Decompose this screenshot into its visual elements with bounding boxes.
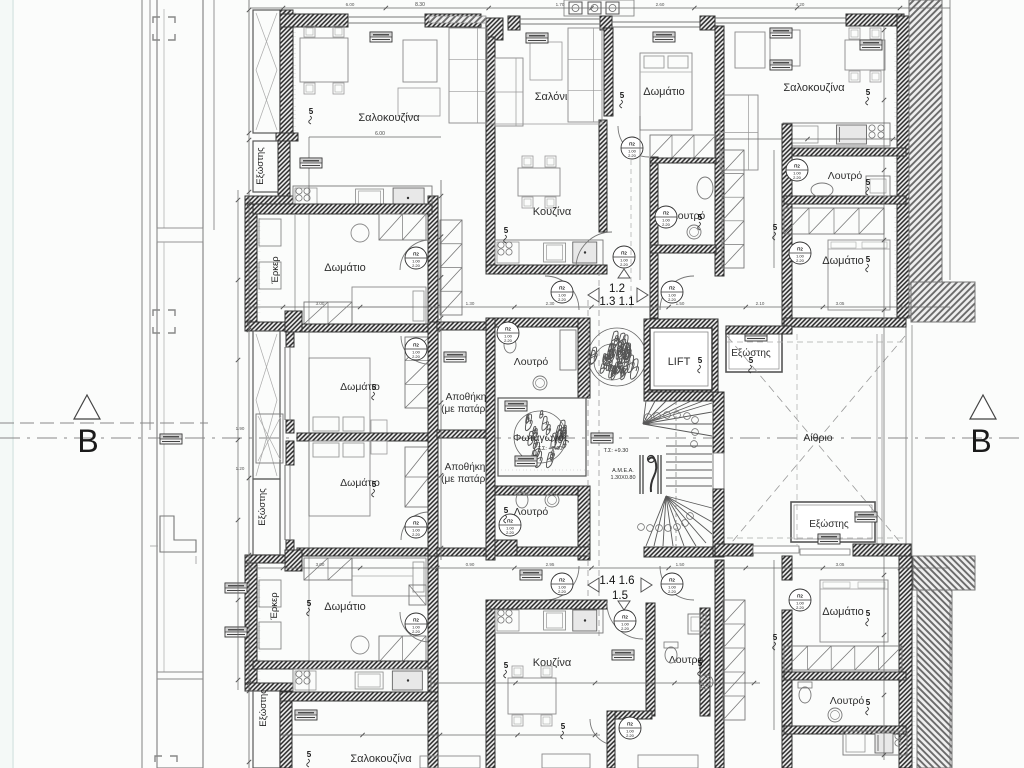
right apartments left wall x715 (715, 26, 724, 276)
svg-text:1.5: 1.5 (612, 590, 628, 602)
dimbox photagogos a (515, 456, 537, 466)
right unit inner wall x782 (782, 124, 792, 330)
wall above bl kitchen counter (253, 661, 431, 669)
window number 5 (307, 750, 312, 767)
svg-text:Π2: Π2 (621, 251, 627, 256)
wall bottom-left y692 (280, 692, 438, 701)
window number 5 (620, 91, 625, 108)
svg-text:2.30: 2.30 (546, 301, 555, 306)
svg-text:3.00: 3.00 (316, 301, 325, 306)
lift inner box (650, 328, 712, 390)
right unit top wall window (715, 17, 846, 19)
bedroom bottom-right left wall lower (782, 610, 792, 768)
bedroom2 door arc (618, 126, 649, 157)
storage divider (437, 430, 486, 438)
svg-text:5: 5 (749, 356, 754, 365)
balcony Exostis small left (253, 141, 280, 192)
bedroom right bottom wall (784, 318, 906, 327)
corridor arrow down (618, 601, 630, 610)
svg-text:Σαλόνι: Σαλόνι (535, 91, 568, 103)
svg-text:Σαλοκουζίνα: Σαλοκουζίνα (783, 82, 845, 94)
svg-text:2.20: 2.20 (626, 733, 635, 738)
separation wall under top-left kitchen (253, 204, 432, 214)
bedroom1 wardrobe top-right (379, 214, 426, 240)
svg-text:Π2: Π2 (413, 343, 419, 348)
step wall y322 (245, 322, 293, 331)
svg-text:Φωταγωγός: Φωταγωγός (513, 432, 569, 444)
kitchen counter bottom-left (293, 669, 431, 692)
window number 5 (307, 599, 312, 616)
svg-text:Π2: Π2 (413, 618, 419, 623)
dimbox salokouzina right (770, 28, 792, 38)
svg-text:3.05: 3.05 (836, 562, 845, 567)
photagogos box (498, 398, 586, 476)
svg-text:5: 5 (773, 633, 778, 642)
window number 5 (866, 609, 871, 626)
svg-text:Π2: Π2 (559, 578, 565, 583)
sink bottom-right (828, 708, 842, 722)
svg-text:5: 5 (866, 609, 871, 618)
vert dim right unit (773, 150, 775, 268)
balcony door sills atrium bottom (753, 546, 799, 553)
window number 5 right bottom (773, 633, 778, 650)
svg-text:5: 5 (307, 599, 312, 608)
step wall y555 (245, 555, 293, 563)
svg-text:Δωμάτιο: Δωμάτιο (324, 262, 366, 274)
wall x486 lower (486, 600, 495, 768)
stair straight treads (666, 446, 712, 486)
window number 5 (698, 659, 703, 676)
svg-text:6.00: 6.00 (346, 2, 355, 7)
toilet right top (811, 183, 833, 197)
svg-text:2.20: 2.20 (793, 175, 802, 180)
window boxes erker bottom (259, 580, 281, 607)
atrium bottom wall left part (715, 544, 753, 556)
svg-text:5: 5 (698, 213, 703, 222)
svg-text:2.20: 2.20 (621, 626, 630, 631)
kitchen counter row top-left (293, 186, 432, 210)
svg-text:Π2: Π2 (413, 252, 419, 257)
sofa sliver bottom centre-right (638, 755, 698, 768)
wall under bath right bottom (784, 726, 906, 734)
vent box 3 (606, 2, 619, 14)
exostis top right box (726, 331, 782, 372)
kitchen top counter bottom-centre (495, 608, 603, 633)
wall mid bottom (611, 711, 652, 719)
vent box 1 (569, 2, 582, 14)
svg-text:5: 5 (372, 480, 377, 489)
left rooms right wall x428 lower (428, 556, 438, 768)
door circle core bath bottom (499, 514, 521, 536)
kitchen bottom wall (486, 265, 607, 274)
L-shaped kerb mark (160, 516, 196, 552)
wall salon/bedroom2 (604, 28, 613, 116)
svg-text:T.Σ: +9.60: T.Σ: +9.60 (538, 446, 563, 452)
svg-text:2.20: 2.20 (620, 262, 629, 267)
erker outer wall top (245, 204, 257, 322)
svg-text:5: 5 (561, 722, 566, 731)
window number 5 (372, 383, 377, 400)
svg-text:5: 5 (372, 383, 377, 392)
closet band bottom-right (784, 646, 902, 670)
storage wall top (437, 322, 486, 330)
dining table bottom kitchen (508, 666, 556, 726)
kitchen right wall (599, 120, 607, 232)
svg-text:3.05: 3.05 (836, 301, 845, 306)
door arc mid-left upper (401, 336, 429, 364)
svg-text:B: B (970, 423, 991, 459)
stair window right (713, 453, 724, 489)
left wall segment mid (286, 331, 294, 347)
svg-text:1.30X0.80: 1.30X0.80 (610, 475, 635, 481)
door circle bath bottom-mid (619, 717, 641, 739)
window number 5 (866, 698, 871, 715)
closet mid-left lower (405, 447, 429, 507)
svg-text:1.3 1.1: 1.3 1.1 (599, 296, 634, 308)
svg-text:Δωμάτιο: Δωμάτιο (822, 255, 864, 267)
stair lower fan (646, 496, 712, 546)
svg-text:5: 5 (504, 661, 509, 670)
sofa set top-left right (449, 28, 487, 123)
dimbox storage (444, 352, 466, 362)
step wall y133 (276, 133, 298, 141)
window number 5 (698, 213, 703, 230)
svg-text:Π2: Π2 (669, 286, 675, 291)
kitchen door arc (576, 232, 612, 268)
svg-text:5: 5 (866, 88, 871, 97)
wall x486 core left (486, 318, 495, 560)
svg-text:5: 5 (698, 659, 703, 668)
insulation dots left upper (293, 12, 296, 132)
dim line 6.00 left unit (309, 136, 441, 138)
insulation dots erker bottom (258, 565, 261, 681)
door circle bottom-left bedroom (405, 613, 427, 635)
coffee table top-left (398, 88, 440, 116)
bedroom bl wardrobe (379, 636, 426, 662)
window number 5 right unit (773, 223, 778, 240)
svg-text:1.70: 1.70 (556, 2, 565, 7)
svg-text:Εξώστης: Εξώστης (257, 488, 268, 526)
closet band right (784, 208, 884, 234)
svg-text:2.20: 2.20 (558, 297, 567, 302)
window number 5 (309, 107, 314, 124)
wall bath-mid left x650 (650, 157, 658, 318)
svg-text:Π2: Π2 (622, 615, 628, 620)
stair right wall lower (713, 489, 724, 557)
pavement inner divider B (163, 242, 165, 672)
salon top window (520, 18, 600, 20)
stair fan upper (643, 401, 712, 436)
salon right sofa (568, 28, 602, 122)
dim chain bottom-left unit (280, 734, 600, 736)
svg-text:B: B (77, 423, 98, 459)
stair right wall (713, 392, 724, 453)
svg-text:5: 5 (307, 750, 312, 759)
bottom unit sofa right (542, 754, 590, 768)
svg-text:1.50: 1.50 (676, 562, 685, 567)
toilet core bottom (515, 487, 529, 508)
right exterior wall upper (897, 16, 909, 318)
pavement inner divider A (163, 9, 165, 228)
svg-text:Εξώστης: Εξώστης (258, 689, 269, 727)
svg-text:Π2: Π2 (507, 519, 513, 524)
balcony mid-left (253, 331, 280, 479)
svg-text:Δωμάτιο: Δωμάτιο (822, 606, 864, 618)
hatch block bath (495, 540, 517, 556)
kitchen counter mid (495, 240, 603, 265)
svg-text:Σαλοκουζίνα: Σαλοκουζίνα (350, 753, 412, 765)
corridor tree (588, 328, 646, 386)
svg-text:5: 5 (698, 356, 703, 365)
atrium right boundary lines (905, 325, 907, 556)
salon top wall piers (508, 16, 520, 30)
svg-text:Έρκερ: Έρκερ (270, 256, 281, 285)
balcony bottom-left (253, 691, 280, 768)
right exterior wall lower (899, 556, 912, 768)
svg-text:Εξώστης: Εξώστης (255, 147, 266, 185)
section marker left triangle (74, 395, 100, 419)
svg-text:2.20: 2.20 (662, 222, 671, 227)
door arc bath bottom-mid (590, 719, 616, 745)
bath right walls (784, 196, 906, 204)
dim chain lower horizontal (250, 567, 950, 569)
kitchen counter right top (783, 123, 890, 146)
door circle kitchen bottom (614, 610, 636, 632)
atrium bottom wall right part (853, 544, 911, 556)
atrium top wall (726, 326, 792, 334)
kitchen top wall bottom-centre (486, 600, 607, 609)
svg-text:2.20: 2.20 (796, 258, 805, 263)
wall bottom right of kitchen (607, 711, 615, 768)
svg-text:8.30: 8.30 (415, 2, 425, 8)
svg-text:5: 5 (773, 223, 778, 232)
core bath bottom wall2 (495, 547, 590, 556)
atrium diagonals (727, 336, 905, 548)
left wall segment 2 (278, 141, 290, 196)
section marker right triangle (970, 395, 996, 419)
bath mid top wall (650, 158, 716, 163)
core bath top right wall (578, 318, 590, 398)
left rooms right wall x428 mid (428, 322, 438, 556)
bath mid bottom walls (646, 603, 655, 716)
vertical dim chain x309 (308, 214, 310, 700)
nightstand mid-left (371, 420, 387, 433)
bath core tub (560, 330, 576, 370)
window lines mid-left lower (284, 465, 286, 540)
window number 5 (504, 661, 509, 678)
salon dining table (518, 156, 560, 208)
erker outer wall bottom (245, 563, 257, 683)
svg-text:1.4 1.6: 1.4 1.6 (599, 575, 634, 587)
top wall right segment (425, 14, 481, 27)
section line B-B (0, 437, 1024, 439)
site boundary line 2 (149, 0, 151, 430)
window boxes erker top (259, 219, 281, 246)
closet bottom-left room (304, 558, 352, 580)
left wall segment bottom (280, 691, 292, 768)
sink core top (533, 376, 547, 390)
bed bedroom bottom-right (820, 580, 888, 642)
door circle bedroom1 (405, 247, 427, 269)
amea figure (640, 455, 661, 494)
corridor arrow left b (588, 578, 599, 592)
door arc corridor left b (545, 566, 579, 600)
svg-text:2.20: 2.20 (412, 532, 421, 537)
corridor dashed centerlines (587, 300, 589, 600)
bedroom bottom-right left wall upper (782, 556, 792, 580)
top terrace platform (564, 0, 634, 16)
neighbour party wall band lower (917, 590, 952, 768)
left wall segment mid2 (286, 441, 294, 465)
table right apartment (845, 28, 885, 82)
svg-text:Π2: Π2 (413, 521, 419, 526)
door circle core bath top (497, 322, 519, 344)
neighbour block lower (913, 556, 975, 590)
top corner block (486, 18, 503, 40)
door circle right bedroom (789, 242, 811, 264)
dimbox bottom corridor (520, 570, 542, 580)
svg-text:5: 5 (620, 91, 625, 100)
core bath bottom (495, 486, 590, 495)
photagogos inner ledge (498, 469, 586, 471)
lift outer wall (644, 319, 718, 399)
corridor arrow right b (641, 578, 652, 592)
bl narrow closet right (409, 585, 426, 605)
svg-text:Αποθήκη: Αποθήκη (446, 391, 487, 403)
svg-text:2.95: 2.95 (546, 562, 555, 567)
svg-text:(με πατάρι): (με πατάρι) (441, 473, 491, 485)
window box between balconies mid-left (256, 414, 283, 463)
door arc corridor left (545, 276, 579, 310)
svg-text:2.20: 2.20 (796, 605, 805, 610)
insulation dots erker top (258, 206, 261, 320)
insulation dots right wall (894, 20, 896, 315)
dim chain top (250, 7, 950, 9)
column marker mid-left dashed (153, 310, 175, 333)
armchair top-left (403, 40, 437, 82)
column marker bottom-left dashed (155, 756, 177, 762)
svg-text:T.Σ: +9.30: T.Σ: +9.30 (604, 448, 629, 454)
svg-text:5: 5 (309, 107, 314, 116)
dim chain far left vertical (237, 190, 239, 690)
stair bottom wall (644, 547, 713, 557)
wall kitchen-left core x486 upper (486, 37, 495, 272)
storage wall bottom (437, 548, 486, 556)
dimbox top-left (370, 32, 392, 42)
dimbox bottom-left unit (295, 710, 317, 720)
bath mid bottom right wall (700, 608, 710, 716)
top wall left segment (280, 14, 348, 27)
door arc corridor right (660, 276, 694, 310)
bed bedroom2 (640, 53, 692, 130)
bedroom1 bed (352, 287, 426, 325)
closet band mid-top (650, 135, 716, 158)
dim chain right vertical (883, 26, 885, 760)
right unit top wall hatched (846, 14, 904, 26)
window number 5 (372, 480, 377, 497)
stair top wall (644, 392, 713, 401)
svg-text:1.2: 1.2 (609, 283, 625, 295)
dimbox kitchen top-left (300, 158, 322, 168)
svg-text:3.00: 3.00 (316, 562, 325, 567)
bedroom bottom-left bed (352, 558, 426, 596)
toilet mid (697, 177, 713, 199)
dimbox salon (526, 33, 548, 43)
closet vertical right unit top (722, 150, 744, 268)
site boundary line 1 (141, 0, 143, 768)
svg-text:2.20: 2.20 (668, 589, 677, 594)
svg-text:Σαλοκουζίνα: Σαλοκουζίνα (358, 112, 420, 124)
svg-text:4.20: 4.20 (796, 2, 805, 7)
site boundary line 3 (213, 0, 215, 230)
svg-text:2.20: 2.20 (504, 338, 513, 343)
neighbour block mid (911, 282, 975, 322)
window lines mid-left upper (284, 347, 286, 420)
door arc bedroom1 (400, 240, 430, 270)
svg-text:Π2: Π2 (797, 247, 803, 252)
dimbox bedroom2 (653, 32, 675, 42)
salon coffee table (530, 42, 562, 80)
door circle bath right (786, 159, 808, 181)
svg-text:A.M.E.A.: A.M.E.A. (612, 468, 634, 474)
shaft closet x440 (440, 220, 462, 315)
dim chain left vertical (440, 180, 442, 560)
dimbox bottom mid (612, 650, 634, 660)
bedroom1 stool (351, 224, 369, 242)
closet mid-left upper (405, 337, 429, 408)
svg-text:Λουτρό: Λουτρό (830, 695, 865, 707)
bath bottom-right walls (784, 672, 906, 680)
corner block bl (285, 550, 302, 571)
sink mid bottom (699, 675, 713, 689)
bathtub right top (866, 176, 890, 196)
svg-text:2.10: 2.10 (756, 301, 765, 306)
vert dim right unit bottom (773, 560, 775, 730)
corridor arrow left (588, 288, 599, 302)
dimbox corridor (591, 433, 613, 443)
apartment hallway dashes (630, 160, 632, 308)
svg-text:2.20: 2.20 (628, 153, 637, 158)
balcony top-left (253, 10, 280, 133)
corridor arrow up (618, 269, 630, 278)
dimbox exostis bottom (855, 512, 877, 522)
svg-text:2.20: 2.20 (412, 263, 421, 268)
svg-text:1.20: 1.20 (236, 466, 245, 471)
svg-text:Π2: Π2 (505, 327, 511, 332)
window number 5 lift (698, 356, 703, 373)
toilet core top (503, 332, 517, 353)
top window lines (348, 16, 425, 18)
right mid wall x715 lower (715, 560, 724, 768)
dim chain y683 (430, 682, 760, 684)
wall below lift to atrium (712, 391, 724, 393)
svg-text:2.20: 2.20 (412, 629, 421, 634)
window number 5 (866, 178, 871, 195)
pavement divider band 1 (157, 228, 203, 242)
core bath top walls (495, 318, 590, 327)
bath mid bottom wall (650, 245, 716, 253)
svg-text:2.20: 2.20 (558, 589, 567, 594)
svg-text:Π2: Π2 (627, 722, 633, 727)
left rooms right wall x428 upper (428, 196, 438, 322)
bottom sofa (420, 756, 480, 768)
svg-text:Λουτρό: Λουτρό (514, 506, 549, 518)
stair walkline (675, 400, 677, 546)
dimbox photagogos b (505, 401, 527, 411)
svg-text:5: 5 (504, 506, 509, 515)
dim chain mid horizontal (250, 306, 950, 308)
svg-text:5: 5 (866, 178, 871, 187)
